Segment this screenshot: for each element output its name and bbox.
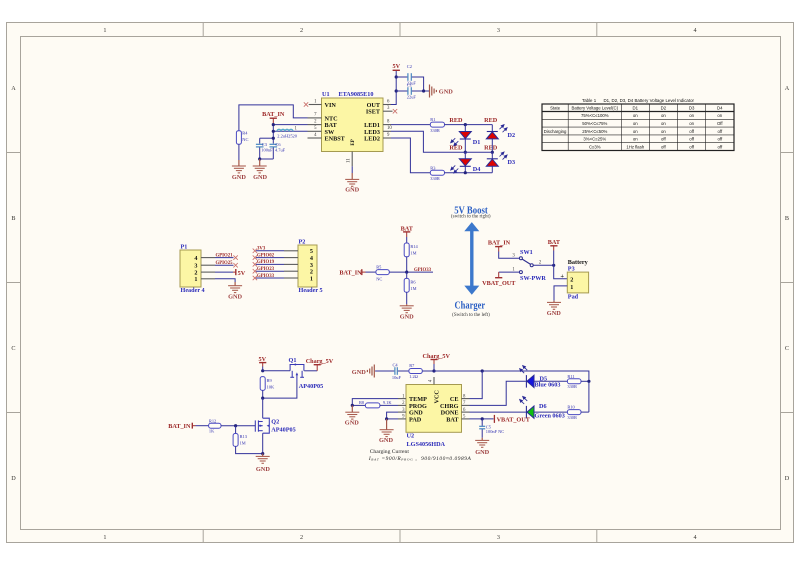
svg-text:RED: RED xyxy=(449,145,463,152)
wire BAT to P3 pin2 xyxy=(554,251,568,279)
mode arrow xyxy=(464,222,479,295)
junction mid rail left xyxy=(464,151,467,154)
svg-text:1: 1 xyxy=(310,275,313,282)
wire Q1 gate L xyxy=(263,383,297,399)
wire LED3 to mid rail xyxy=(391,131,492,152)
svg-text:BAT_IN: BAT_IN xyxy=(488,240,511,247)
wire R9 to gate node xyxy=(262,390,264,398)
wire R14 to node xyxy=(406,257,408,272)
svg-text:+: + xyxy=(560,273,564,280)
wire P3 pin1 to ground xyxy=(554,286,567,301)
svg-text:C4: C4 xyxy=(393,363,399,368)
svg-text:GND: GND xyxy=(232,174,246,181)
connector P2 Header 5 xyxy=(284,239,323,295)
power port BAT_IN at R5 xyxy=(339,269,365,277)
svg-text:1: 1 xyxy=(194,276,197,283)
svg-text:D3: D3 xyxy=(689,106,695,111)
wire R3 to LED bottoms xyxy=(445,172,493,174)
svg-text:1K: 1K xyxy=(209,429,215,434)
wire BAT to VBAT_OUT xyxy=(470,418,494,420)
svg-text:on: on xyxy=(717,113,722,118)
wire rail to Q1 xyxy=(263,370,290,372)
connector P1 Header 4 xyxy=(180,244,215,295)
net label VBAT_OUT xyxy=(494,415,530,424)
wire 5V to rail xyxy=(262,367,264,371)
junction C1 right xyxy=(422,89,425,92)
svg-text:IBAT =900/RPROG , 900/9100≈0.: IBAT =900/RPROG , 900/9100≈0.0989A xyxy=(368,456,472,462)
svg-text:100nF: 100nF xyxy=(261,148,273,153)
ground under P3 xyxy=(547,301,561,318)
LED D4 xyxy=(450,152,481,174)
svg-text:off: off xyxy=(661,137,667,142)
svg-text:U1: U1 xyxy=(322,91,330,98)
wire SW1 pin1 to VBAT_OUT xyxy=(499,271,520,273)
resistor R6 1M xyxy=(404,278,416,292)
svg-text:B: B xyxy=(785,215,789,222)
svg-text:GND: GND xyxy=(345,420,359,427)
svg-text:9.1K: 9.1K xyxy=(383,400,392,405)
resistor R12 1K xyxy=(209,418,221,433)
svg-text:330R: 330R xyxy=(567,415,577,420)
junction R8 left xyxy=(351,404,354,407)
svg-text:GND: GND xyxy=(379,437,393,444)
svg-text:State: State xyxy=(550,106,561,111)
wire P2 pin5 3V3 xyxy=(256,250,284,252)
wire to R13 xyxy=(235,426,237,434)
ground under PAD xyxy=(379,419,394,444)
svg-text:4: 4 xyxy=(194,255,197,262)
svg-text:Battery Voltage Level(C): Battery Voltage Level(C) xyxy=(572,106,619,111)
ground under U1 EP xyxy=(345,166,359,193)
power port Charg_5V at U2 xyxy=(423,353,451,364)
ground under C3 C6 xyxy=(253,159,268,181)
svg-text:4: 4 xyxy=(694,534,697,541)
svg-text:C: C xyxy=(785,345,789,352)
table 1 battery voltage level indicator xyxy=(542,98,734,151)
svg-text:11: 11 xyxy=(347,158,352,163)
no-ERC 3V3 xyxy=(253,249,257,253)
svg-text:R8: R8 xyxy=(359,400,365,405)
svg-text:B: B xyxy=(11,215,15,222)
svg-text:R13: R13 xyxy=(240,434,248,439)
junction 5V rail xyxy=(261,369,264,372)
wire R11 to rail xyxy=(581,380,589,382)
svg-text:3%<C≤25%: 3%<C≤25% xyxy=(583,137,606,142)
junction ground node Q2 xyxy=(261,452,264,455)
wire P2 pin2 GPIO23 xyxy=(256,270,284,272)
svg-text:Table 1 D1, D2, D3, D4 Ba: Table 1 D1, D2, D3, D4 Battery Voltage L… xyxy=(582,98,694,103)
junction BAT xyxy=(272,123,275,126)
svg-text:(Switch to the left): (Switch to the left) xyxy=(452,313,490,318)
ground under C5 xyxy=(475,438,489,456)
wire P2 pin4 GPIO02 xyxy=(256,257,284,259)
wire NTC to R4 xyxy=(239,105,308,131)
junction BAT trunk xyxy=(552,264,555,267)
svg-text:4.7uF: 4.7uF xyxy=(275,148,286,153)
svg-text:off: off xyxy=(689,144,695,149)
svg-text:Off: Off xyxy=(717,121,723,126)
capacitor C1 22uF xyxy=(396,82,429,99)
svg-text:NC: NC xyxy=(242,137,248,142)
power port BAT at divider xyxy=(401,225,414,237)
battery connector P3 xyxy=(560,259,588,301)
wire BAT to R14 xyxy=(406,237,408,243)
resistor R13 1M xyxy=(233,434,248,447)
capacitor C3 100nF xyxy=(256,138,273,159)
svg-text:2: 2 xyxy=(300,534,303,541)
svg-text:Pad: Pad xyxy=(568,294,579,301)
ground under R8 xyxy=(345,405,360,426)
svg-text:1M: 1M xyxy=(410,251,416,256)
LED D1 xyxy=(450,125,481,153)
power port VBAT_OUT at SW1 xyxy=(482,272,516,287)
svg-text:D2: D2 xyxy=(661,106,667,111)
svg-text:SW1: SW1 xyxy=(520,249,533,256)
wire PAD pin xyxy=(387,418,398,420)
svg-text:VCC: VCC xyxy=(433,390,440,403)
svg-text:GND: GND xyxy=(345,186,359,193)
svg-text:BAT: BAT xyxy=(446,416,459,423)
wire CE to rail xyxy=(470,371,483,399)
svg-text:22uF: 22uF xyxy=(407,95,417,100)
ground right of C1 sideways xyxy=(430,85,454,98)
wire LED1 to R1 xyxy=(391,124,430,126)
svg-text:RED: RED xyxy=(484,145,498,152)
junction C1 xyxy=(395,89,398,92)
resistor R4 xyxy=(236,130,248,144)
svg-text:3: 3 xyxy=(497,534,500,541)
svg-text:BAT_IN: BAT_IN xyxy=(168,423,191,430)
svg-text:Q2: Q2 xyxy=(271,418,279,425)
wire R13 to ground rail xyxy=(236,446,263,453)
wire P2 pin3 GPIO19 xyxy=(256,263,284,265)
wire D5 to R11 xyxy=(534,380,567,382)
wire R6 to ground xyxy=(406,292,408,304)
wire LED2 to R3 xyxy=(391,138,430,173)
svg-text:LGS4056HDA: LGS4056HDA xyxy=(407,441,446,448)
svg-text:SW-PWR: SW-PWR xyxy=(520,275,546,282)
wire P1 pin2 5V xyxy=(215,271,233,273)
svg-text:R7: R7 xyxy=(409,363,415,368)
svg-text:C: C xyxy=(11,345,15,352)
svg-text:4: 4 xyxy=(694,27,697,34)
svg-text:1: 1 xyxy=(103,534,106,541)
svg-text:on: on xyxy=(633,137,638,142)
svg-text:GND: GND xyxy=(228,293,242,300)
svg-text:2: 2 xyxy=(570,277,573,284)
svg-text:GPIO19: GPIO19 xyxy=(257,260,275,265)
svg-text:U2: U2 xyxy=(407,433,415,440)
capacitor C5 100nF NC xyxy=(479,419,504,438)
svg-text:330R: 330R xyxy=(430,128,440,133)
svg-text:C≤3%: C≤3% xyxy=(589,144,601,149)
svg-text:R3: R3 xyxy=(430,165,436,170)
svg-text:on: on xyxy=(661,129,666,134)
wire CHRG to D5 xyxy=(470,381,526,405)
svg-text:10uF: 10uF xyxy=(392,375,402,380)
svg-text:ENBST: ENBST xyxy=(325,136,346,143)
wire P2 pin1 GPIO33 xyxy=(256,277,284,279)
junction Charg_5V rail xyxy=(432,369,435,372)
svg-text:on: on xyxy=(633,113,638,118)
wire DONE to D6 xyxy=(470,411,526,413)
no-ERC GPIO25 xyxy=(233,263,237,267)
wire P1 pin3 GPIO25 xyxy=(215,264,234,266)
svg-text:D1: D1 xyxy=(473,139,481,146)
svg-text:EP: EP xyxy=(351,139,356,145)
svg-text:on: on xyxy=(633,121,638,126)
LED D2 xyxy=(486,124,515,152)
svg-text:BAT_IN: BAT_IN xyxy=(339,270,362,277)
svg-text:LED2: LED2 xyxy=(364,136,380,143)
svg-text:D: D xyxy=(785,475,790,482)
svg-text:PAD: PAD xyxy=(409,416,422,423)
junction ground node xyxy=(258,157,261,160)
wire R7 to Charg_5V node xyxy=(422,370,434,372)
svg-text:Charg_5V: Charg_5V xyxy=(306,358,334,365)
svg-text:5V: 5V xyxy=(238,270,246,277)
power port BAT_IN at SW1 xyxy=(488,240,511,252)
svg-text:R6: R6 xyxy=(410,280,416,285)
svg-text:D2: D2 xyxy=(508,132,516,139)
svg-text:Blue 0603: Blue 0603 xyxy=(535,382,561,389)
svg-text:2.2uH2520: 2.2uH2520 xyxy=(277,133,297,138)
svg-text:GND: GND xyxy=(439,88,453,95)
svg-text:D4: D4 xyxy=(473,166,481,173)
svg-text:D: D xyxy=(11,475,16,482)
svg-text:GND: GND xyxy=(547,310,561,317)
svg-text:R11: R11 xyxy=(567,374,574,379)
inductor L1 2.2uH xyxy=(273,127,307,139)
svg-text:on: on xyxy=(661,121,666,126)
wire Q1 to Charg_5V xyxy=(304,370,317,372)
transistor Q1 AP40P05 xyxy=(290,363,304,382)
wire R10 to rail xyxy=(581,411,589,413)
svg-text:off: off xyxy=(717,137,723,142)
svg-text:GND: GND xyxy=(475,449,489,456)
junction mid rail right xyxy=(491,151,494,154)
svg-text:C1: C1 xyxy=(407,82,412,87)
svg-text:1M: 1M xyxy=(240,441,246,446)
svg-text:100nF NC: 100nF NC xyxy=(486,429,504,434)
switch SW1 xyxy=(512,249,546,282)
svg-text:C6: C6 xyxy=(275,142,281,147)
resistor R7 1.2 ohm xyxy=(398,363,423,379)
resistor R3 330R xyxy=(430,165,444,181)
svg-text:RED: RED xyxy=(484,117,498,124)
svg-text:R1: R1 xyxy=(430,117,435,122)
svg-text:BAT_IN: BAT_IN xyxy=(262,111,285,118)
junction C2 xyxy=(395,75,398,78)
svg-text:1Hz flash: 1Hz flash xyxy=(626,144,645,149)
svg-text:AP40P05: AP40P05 xyxy=(271,427,295,434)
svg-text:GPIO25: GPIO25 xyxy=(216,261,234,266)
svg-text:GND: GND xyxy=(256,466,270,473)
svg-text:330R: 330R xyxy=(430,176,440,181)
svg-text:VIN: VIN xyxy=(325,102,337,109)
svg-text:5V: 5V xyxy=(393,63,401,70)
junction CE drop xyxy=(481,369,484,372)
ground left of C4 sideways xyxy=(352,365,375,378)
note charging current xyxy=(368,449,472,462)
svg-text:on: on xyxy=(689,113,694,118)
junction gate node xyxy=(261,397,264,400)
svg-text:1: 1 xyxy=(570,284,573,291)
wire node to R6 xyxy=(406,272,408,278)
junction R13 top xyxy=(234,424,237,427)
power port Charg_5V at Q1 xyxy=(306,358,334,371)
junction PAD xyxy=(385,417,388,420)
svg-text:off: off xyxy=(661,144,667,149)
svg-text:A: A xyxy=(11,85,16,92)
svg-text:2: 2 xyxy=(300,27,303,34)
resistor R1 330R xyxy=(430,117,444,133)
resistor R5 NC xyxy=(376,264,389,281)
svg-text:10K: 10K xyxy=(267,385,275,390)
svg-text:C3: C3 xyxy=(262,142,268,147)
power port 5V at Q1 xyxy=(259,356,267,366)
power port 5V at P1 xyxy=(233,269,246,277)
resistor R10 330R xyxy=(567,405,581,421)
svg-text:R5: R5 xyxy=(376,264,382,269)
wire P1 pin1 to ground xyxy=(215,279,235,282)
ground under R6 xyxy=(400,304,414,320)
svg-text:VBAT_OUT: VBAT_OUT xyxy=(482,280,516,287)
wire R4 to ground xyxy=(238,144,240,160)
junction C5 xyxy=(481,417,484,420)
svg-text:ISET: ISET xyxy=(366,109,381,116)
svg-text:R12: R12 xyxy=(209,418,216,423)
svg-text:ETA9085E10: ETA9085E10 xyxy=(339,91,374,98)
svg-text:Q1: Q1 xyxy=(289,357,297,364)
charger IC U2 LGS4056HDA xyxy=(398,377,470,448)
svg-text:on: on xyxy=(633,129,638,134)
no-ERC on ISET pin 3 xyxy=(393,109,397,113)
capacitor C6 4.7uF xyxy=(270,142,286,160)
no-ERC GPIO23 xyxy=(253,269,257,273)
LED D6 green xyxy=(519,396,565,420)
wire SW1 pin2 to BAT trunk xyxy=(533,264,554,266)
svg-text:P1: P1 xyxy=(181,244,188,251)
ground under Q2 xyxy=(256,454,271,473)
transistor Q2 AP40P05 xyxy=(255,418,269,433)
wire rail to right column xyxy=(434,371,589,412)
capacitor C2 22uF xyxy=(396,64,423,91)
svg-text:P2: P2 xyxy=(299,239,306,246)
svg-text:VBAT_OUT: VBAT_OUT xyxy=(497,417,531,424)
no-ERC GPIO19 xyxy=(253,262,257,266)
wire Charg_5V stem xyxy=(433,364,435,371)
wire to C3 xyxy=(260,137,274,139)
LED D5 blue xyxy=(519,365,561,389)
svg-text:on: on xyxy=(661,113,666,118)
svg-text:330R: 330R xyxy=(567,384,577,389)
wire OUT to 5V xyxy=(391,70,396,104)
svg-text:Discharging: Discharging xyxy=(544,129,567,134)
svg-text:D1: D1 xyxy=(633,106,639,111)
svg-text:3V3: 3V3 xyxy=(257,247,266,252)
op-amp U1 ETA9085E10 boost converter xyxy=(308,91,393,166)
power port BAT above P3 xyxy=(548,239,561,250)
wire R5 to GPIO33 xyxy=(389,271,433,273)
node Charger title xyxy=(452,301,490,318)
svg-text:GPIO33: GPIO33 xyxy=(257,274,275,279)
svg-text:Charging Current: Charging Current xyxy=(370,449,410,455)
svg-text:on: on xyxy=(689,121,694,126)
svg-text:Header 5: Header 5 xyxy=(299,287,323,294)
svg-text:NC: NC xyxy=(376,277,382,282)
resistor R8 9.1K xyxy=(352,400,398,408)
no-ERC GPIO33 xyxy=(253,276,257,280)
wire BAT_IN trunk xyxy=(272,125,274,142)
svg-text:1M: 1M xyxy=(410,286,416,291)
svg-text:GPIO21: GPIO21 xyxy=(216,253,234,258)
wire BAT_IN to R5 xyxy=(366,271,376,273)
svg-text:D3: D3 xyxy=(508,159,516,166)
svg-text:Header 4: Header 4 xyxy=(181,287,205,294)
wire R1 to LED column xyxy=(445,124,493,126)
wire trunk to Q2 xyxy=(262,398,264,418)
resistor R9 10K xyxy=(260,377,275,391)
svg-text:P3: P3 xyxy=(568,265,575,272)
junction C6 top xyxy=(272,137,275,140)
wire Q2 to ground xyxy=(262,433,264,453)
svg-text:RED: RED xyxy=(449,117,463,124)
svg-text:25%<C≤50%: 25%<C≤50% xyxy=(582,129,607,134)
svg-text:R14: R14 xyxy=(410,244,418,249)
svg-text:off: off xyxy=(717,144,723,149)
svg-text:off: off xyxy=(689,137,695,142)
capacitor C4 10uF xyxy=(375,363,401,380)
svg-text:3: 3 xyxy=(497,27,500,34)
junction top rail left xyxy=(464,123,467,126)
svg-text:50%<C≤75%: 50%<C≤75% xyxy=(582,121,607,126)
svg-text:Green 0603: Green 0603 xyxy=(535,413,565,420)
LED D3 xyxy=(486,151,515,173)
svg-text:GPIO33: GPIO33 xyxy=(414,268,432,273)
junction L1 xyxy=(272,130,275,133)
wire R12 to gate xyxy=(221,425,255,427)
svg-text:GND: GND xyxy=(253,174,267,181)
svg-text:1: 1 xyxy=(103,27,106,34)
resistor R11 330R xyxy=(567,374,581,389)
ground under R4 xyxy=(232,160,246,181)
svg-text:75%<C≤100%: 75%<C≤100% xyxy=(581,113,609,118)
wire D6 to R10 xyxy=(534,411,567,413)
svg-text:Charger: Charger xyxy=(455,301,486,312)
svg-text:R9: R9 xyxy=(267,378,273,383)
svg-text:off: off xyxy=(717,129,723,134)
no-ERC GPIO02 xyxy=(253,255,257,259)
svg-text:GND: GND xyxy=(400,314,414,321)
wire BAT_IN to SW1 pin3 xyxy=(499,252,520,259)
svg-text:off: off xyxy=(689,129,695,134)
wire TEMP to R8 node xyxy=(352,399,398,406)
wire BAT pin xyxy=(273,124,307,126)
svg-text:R10: R10 xyxy=(567,405,575,410)
wire GND pin to PAD xyxy=(387,412,398,419)
svg-text:1.2Ω: 1.2Ω xyxy=(409,374,418,379)
no-ERC on VIN pin 1 xyxy=(304,102,308,106)
svg-text:D4: D4 xyxy=(717,106,723,111)
wire BAT_IN to R12 xyxy=(196,425,209,427)
svg-text:D6: D6 xyxy=(539,403,547,410)
svg-text:GPIO23: GPIO23 xyxy=(257,267,275,272)
junction divider node xyxy=(405,271,408,274)
resistor R14 1M xyxy=(404,243,418,257)
svg-text:AP40P05: AP40P05 xyxy=(299,383,323,390)
junction R11 rail xyxy=(587,380,590,383)
